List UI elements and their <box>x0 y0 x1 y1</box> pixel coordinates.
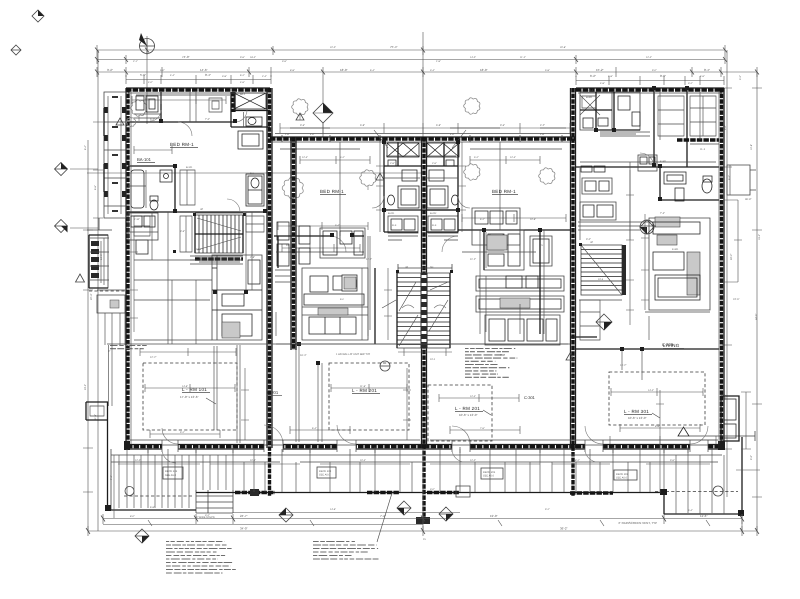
more bottom texts <box>130 508 693 541</box>
window inner line along bottom wall <box>130 439 718 441</box>
right unit dim bracket <box>724 200 742 282</box>
svg-text:44'-6": 44'-6" <box>755 314 758 320</box>
svg-text:15'-2": 15'-2" <box>596 68 604 72</box>
bath block MR <box>426 142 458 210</box>
closet band <box>677 138 719 141</box>
mid units bedroom dims <box>278 214 566 230</box>
hatched wall x233 <box>231 92 235 127</box>
sheet corner marker 1 <box>32 10 44 22</box>
svg-text:8'-8": 8'-8" <box>290 69 295 72</box>
MR kitchen upper <box>484 230 524 270</box>
misc interior thin middle-right <box>462 230 544 334</box>
bedroom vertical thin <box>340 142 500 236</box>
powder room darker <box>246 174 264 206</box>
left unit extra dims <box>130 146 172 332</box>
terrace right deep part <box>664 437 742 514</box>
terrace door arcs <box>162 449 176 463</box>
left marker B <box>55 220 99 233</box>
right unit WD pair <box>638 155 657 171</box>
ML walls near kitchen <box>278 236 375 344</box>
svg-text:34'-0": 34'-0" <box>240 527 248 531</box>
svg-text:6'-4": 6'-4" <box>688 509 693 512</box>
small marks above middle wall <box>290 127 566 129</box>
left unit bath extra <box>128 170 146 208</box>
centerline bottom <box>422 448 424 531</box>
ELEC box MR <box>428 216 458 233</box>
svg-text:11'-6": 11'-6" <box>700 514 707 518</box>
svg-text:12'-2": 12'-2" <box>150 356 156 359</box>
right unit stairs <box>581 245 626 295</box>
svg-text:6'-4": 6'-4" <box>370 69 375 72</box>
terrace circle left <box>125 487 134 496</box>
svg-text:8'-8": 8'-8" <box>655 425 660 428</box>
diamond marker center1 <box>397 501 411 515</box>
svg-text:2'-6": 2'-6" <box>390 162 395 165</box>
dim texts bottom <box>240 514 707 531</box>
setback line y173 <box>87 172 423 174</box>
svg-text:24'-7": 24'-7" <box>240 514 248 518</box>
dashed rect living L1 <box>143 363 237 430</box>
interior wall x161 <box>160 92 162 122</box>
warning triangle left <box>76 274 85 282</box>
left margin extra structure <box>87 218 112 230</box>
bath top-left with door X <box>580 92 640 130</box>
svg-text:4'-2": 4'-2" <box>540 124 545 127</box>
svg-text:L - RM 201: L - RM 201 <box>455 406 480 411</box>
svg-text:CL-3: CL-3 <box>700 148 706 151</box>
extra smudge labels rooms <box>196 248 679 361</box>
more interior leaders <box>382 282 448 308</box>
svg-text:74'-0": 74'-0" <box>182 55 190 59</box>
right unit kitchen dims <box>641 214 649 310</box>
svg-text:14'-0": 14'-0" <box>100 254 103 260</box>
interior dim line y100 left block <box>132 96 226 104</box>
central stair surround <box>398 264 452 272</box>
svg-text:5'-4": 5'-4" <box>335 224 340 227</box>
svg-text:11'-8": 11'-8" <box>94 414 97 420</box>
sheet corner marker 2 <box>11 45 21 55</box>
living labels <box>180 342 674 420</box>
diamond marker center2 <box>439 507 453 521</box>
svg-text:22'-0": 22'-0" <box>330 46 336 49</box>
left exterior wall <box>126 88 129 448</box>
centerline top marker <box>313 103 333 123</box>
top bath fixtures left block <box>234 93 266 149</box>
terrace circle <box>713 486 723 496</box>
svg-text:B-301: B-301 <box>586 96 593 99</box>
svg-text:20'-2": 20'-2" <box>84 384 87 390</box>
MR shower box <box>530 236 552 266</box>
window inner line top left block <box>128 92 722 94</box>
terrace verticals extra <box>127 449 712 513</box>
terrace hatch segment 1 <box>235 491 460 494</box>
svg-text:12'-0": 12'-0" <box>135 459 141 462</box>
right dim vertical x754 <box>752 72 762 531</box>
svg-text:11'-8": 11'-8" <box>360 385 366 388</box>
dim line y533 <box>88 526 757 536</box>
svg-text:3'-2": 3'-2" <box>205 514 210 517</box>
terrace pickets mid <box>244 462 650 492</box>
party wall C x573 <box>571 88 576 496</box>
svg-text:1 HR WALL AT UNIT SEP TYP: 1 HR WALL AT UNIT SEP TYP <box>336 353 371 356</box>
dim ticks along y523 <box>148 520 710 526</box>
right unit upper closet dense <box>690 96 716 136</box>
right margin mid texts <box>728 175 761 240</box>
upper-left stair extra <box>195 213 243 256</box>
right unit bedroom detail <box>581 166 605 172</box>
survey marker top <box>139 33 155 54</box>
left dim vertical x98 <box>93 50 103 531</box>
misc interior thin lines left unit <box>134 212 214 344</box>
svg-text:24'-6": 24'-6" <box>733 298 739 301</box>
assorted tiny dim texts <box>90 118 758 367</box>
svg-text:3'-8": 3'-8" <box>222 75 227 78</box>
svg-text:22'-4": 22'-4" <box>90 294 93 300</box>
left stairs <box>195 215 243 253</box>
svg-text:9'-0": 9'-0" <box>750 455 753 460</box>
gray fills kitchens <box>318 308 348 315</box>
svg-text:5'-0": 5'-0" <box>160 69 165 72</box>
svg-text:B-101: B-101 <box>186 166 193 169</box>
svg-text:8'-4": 8'-4" <box>84 145 87 150</box>
ML entry shaft boxes <box>275 270 291 282</box>
svg-text:8'-2": 8'-2" <box>575 459 580 462</box>
svg-text:BED RM-1: BED RM-1 <box>320 189 344 194</box>
svg-text:2'-4": 2'-4" <box>262 75 267 78</box>
svg-text:16'-4": 16'-4" <box>300 354 306 357</box>
top dims extra texts <box>133 56 705 78</box>
svg-text:11'-2": 11'-2" <box>520 56 526 59</box>
living room mid dim lines <box>145 384 235 392</box>
svg-text:13'-2": 13'-2" <box>620 364 626 367</box>
extra text smudges middle <box>186 96 667 247</box>
left dim vertical x88 <box>83 140 93 531</box>
right exterior wall <box>720 88 723 449</box>
svg-text:K-301: K-301 <box>672 248 679 251</box>
stub walls at ELEC <box>388 236 458 240</box>
svg-text:14'-6": 14'-6" <box>200 68 208 72</box>
top wall left block <box>126 88 270 91</box>
svg-text:1'-6": 1'-6" <box>285 133 290 136</box>
svg-text:4'-0": 4'-0" <box>148 81 153 84</box>
terrace extra detail <box>118 463 710 465</box>
right unit lower left closet <box>580 300 600 340</box>
inner line middle top <box>272 141 570 143</box>
svg-text:9'-2": 9'-2" <box>180 431 185 434</box>
right lower dims <box>736 392 760 470</box>
tub <box>131 170 144 208</box>
svg-text:SEE A5.0: SEE A5.0 <box>616 477 628 480</box>
slash ticks bottom dim <box>86 516 759 535</box>
left annex hatched box <box>89 235 108 288</box>
right margin texts rotated <box>724 75 753 460</box>
bedroom wall y236 <box>274 235 364 237</box>
left unit corridor detail <box>134 212 252 290</box>
svg-text:19'-0": 19'-0" <box>490 514 498 518</box>
svg-text:18'-2": 18'-2" <box>250 56 256 59</box>
svg-text:6'-8": 6'-8" <box>360 124 365 127</box>
svg-text:14'-2": 14'-2" <box>648 389 654 392</box>
marker right stairs <box>596 314 612 330</box>
svg-text:13'-6": 13'-6" <box>724 394 727 400</box>
left kitchen <box>212 255 262 340</box>
bedroom window sill lines <box>136 95 562 149</box>
svg-text:6'-6": 6'-6" <box>94 185 97 190</box>
hall closet lines top-left block <box>190 92 222 122</box>
svg-text:BA-101: BA-101 <box>137 157 152 162</box>
svg-text:11'-2": 11'-2" <box>470 258 476 261</box>
svg-text:5'-2": 5'-2" <box>474 156 479 159</box>
extra top dim texts <box>148 46 693 85</box>
MR W/D cluster <box>472 208 520 250</box>
svg-text:10'-4": 10'-4" <box>250 459 256 462</box>
misc interior right unit <box>579 162 716 340</box>
svg-text:UP: UP <box>200 208 204 211</box>
svg-text:5'-8": 5'-8" <box>608 75 613 78</box>
svg-text:18'-2": 18'-2" <box>730 254 733 260</box>
svg-text:DECK 101: DECK 101 <box>165 470 178 473</box>
hall walls center units upper <box>384 210 458 232</box>
left porch strip <box>104 92 126 218</box>
svg-text:9'-6": 9'-6" <box>670 459 675 462</box>
svg-text:4'-0": 4'-0" <box>450 133 455 136</box>
kitchen MR detail lines <box>506 276 538 288</box>
left unit W/D closet <box>128 213 158 240</box>
svg-text:9'-2": 9'-2" <box>107 68 113 72</box>
right dim vertical x728 <box>722 50 732 497</box>
toilet <box>150 196 158 210</box>
MR kitchen islands <box>476 276 564 312</box>
vertical reference line x147 <box>146 36 148 124</box>
extra fixtures left block top <box>136 96 158 112</box>
deck label boxes <box>163 467 637 480</box>
terrace bottom mid <box>196 492 664 494</box>
top dimension line 3 right block <box>576 76 724 85</box>
door jamb blobs <box>159 86 689 365</box>
svg-text:UP: UP <box>405 266 409 269</box>
bottom text paragraph 1 <box>166 542 236 574</box>
svg-text:UP: UP <box>590 241 594 244</box>
pennant marker right <box>678 427 755 441</box>
svg-text:75'-4": 75'-4" <box>390 45 398 49</box>
chimney box right <box>721 396 739 441</box>
svg-text:ST-1: ST-1 <box>196 248 202 251</box>
svg-text:2'-10": 2'-10" <box>134 218 140 221</box>
svg-text:4'-0": 4'-0" <box>310 133 315 136</box>
left annex lower box <box>97 295 125 313</box>
svg-text:DN: DN <box>430 266 434 269</box>
top dimension line 2 <box>97 55 757 77</box>
kitchen ML big counter <box>302 268 368 340</box>
terrace inner horizontal <box>111 455 722 462</box>
svg-text:7'-4": 7'-4" <box>660 212 665 215</box>
svg-text:12'-4": 12'-4" <box>302 156 308 159</box>
dashed rect living MR <box>428 385 492 441</box>
party wall A terrace block <box>250 489 259 496</box>
svg-text:SEE A5.0: SEE A5.0 <box>483 475 495 478</box>
svg-text:14'-6": 14'-6" <box>182 385 188 388</box>
right unit inner walls extra <box>596 92 640 130</box>
small room boxes <box>580 178 616 220</box>
left living extra vert <box>237 345 240 443</box>
dashed rect living ML <box>329 363 409 430</box>
svg-text:17'-0" x 13'-6": 17'-0" x 13'-6" <box>180 395 198 399</box>
svg-text:6'-2": 6'-2" <box>480 218 485 221</box>
svg-text:7'-0": 7'-0" <box>205 118 210 121</box>
svg-text:SEE A5.0: SEE A5.0 <box>319 474 331 477</box>
party wall B terrace block <box>416 517 430 524</box>
svg-text:K-201: K-201 <box>267 390 279 395</box>
hall wall y212 <box>128 211 265 213</box>
svg-text:18'-0": 18'-0" <box>480 68 488 72</box>
svg-text:L - RM 301: L - RM 301 <box>624 409 649 414</box>
svg-text:15'-4": 15'-4" <box>758 234 761 240</box>
left margin texts rotated <box>84 145 113 480</box>
right kitchen <box>649 217 710 310</box>
party wall A x270 <box>267 88 272 496</box>
bath wall y166 <box>128 165 175 167</box>
dim line y523 <box>103 514 742 524</box>
right terrace verticals <box>676 455 724 514</box>
svg-text:BED RM-1: BED RM-1 <box>170 142 194 147</box>
left unit mid lines <box>134 280 212 344</box>
notes text left of beam <box>110 346 147 349</box>
terrace hatch small segs <box>456 486 470 497</box>
svg-text:9'-4": 9'-4" <box>724 125 727 130</box>
svg-text:12'-4": 12'-4" <box>510 156 516 159</box>
diamond marker y512 <box>279 508 293 522</box>
long beam line y344 <box>107 343 570 345</box>
vertical inner lines exterior walls <box>131 92 719 444</box>
dim chain vertical x462 <box>458 142 466 232</box>
door arc bedroom L1 <box>178 122 192 136</box>
svg-text:6'-2": 6'-2" <box>728 175 731 180</box>
svg-text:4'-6": 4'-6" <box>700 75 705 78</box>
svg-text:3'-4": 3'-4" <box>430 69 435 72</box>
interior wall y157 <box>576 166 719 168</box>
svg-text:36'-2": 36'-2" <box>560 527 568 531</box>
svg-text:9'-0": 9'-0" <box>586 238 591 241</box>
middle bath extra fixtures <box>388 160 454 181</box>
circle marker mid <box>380 361 390 371</box>
svg-text:7'-6": 7'-6" <box>480 427 485 430</box>
svg-text:4'-4": 4'-4" <box>170 74 175 77</box>
svg-text:ELE: ELE <box>432 224 437 227</box>
svg-text:C-301: C-301 <box>524 395 536 400</box>
dashed rect living R <box>609 372 705 425</box>
terrace pickets left <box>119 455 226 508</box>
svg-text:10'-6": 10'-6" <box>530 218 536 221</box>
diamond marker bottom left <box>135 529 149 543</box>
dim chain vertical at x380 <box>376 142 384 232</box>
wall y335 right unit <box>570 337 719 349</box>
terrace left edge <box>107 402 109 510</box>
svg-text:4" RAINSCREEN VENT, TYP: 4" RAINSCREEN VENT, TYP <box>618 521 657 525</box>
svg-text:K-301: K-301 <box>660 160 667 163</box>
terrace inner verticals <box>148 449 664 508</box>
svg-text:L - RM 201: L - RM 201 <box>352 388 377 393</box>
svg-text:6'-2": 6'-2" <box>590 74 596 78</box>
svg-text:3'-2": 3'-2" <box>739 75 742 80</box>
svg-text:2'-6": 2'-6" <box>432 162 437 165</box>
interior wall y122 <box>126 121 235 123</box>
svg-text:14'-6": 14'-6" <box>330 508 336 511</box>
svg-text:2'-8": 2'-8" <box>250 256 255 259</box>
svg-text:1'-8": 1'-8" <box>436 60 441 63</box>
left strip sill marks <box>112 96 118 212</box>
left unit door arcs more <box>150 110 161 121</box>
svg-text:ELE: ELE <box>392 224 397 227</box>
svg-text:C-303: C-303 <box>662 342 674 347</box>
svg-text:9'-2": 9'-2" <box>545 508 550 511</box>
svg-text:10'-6" x 13'-0": 10'-6" x 13'-0" <box>628 416 646 420</box>
svg-text:4'-8": 4'-8" <box>600 82 605 85</box>
centerline x423 <box>422 32 424 137</box>
top wall middle section <box>270 137 576 140</box>
sink vanity <box>160 170 172 182</box>
svg-text:3'-6": 3'-6" <box>282 60 287 63</box>
MR bedroom wall y236 <box>458 229 570 231</box>
entry stoop left <box>86 402 108 420</box>
top wall right block <box>576 88 724 91</box>
closet lines left unit hall <box>180 216 264 252</box>
line y511 dim <box>233 512 460 514</box>
misc interior thin middle-left <box>276 236 370 336</box>
svg-text:11'-2": 11'-2" <box>366 258 372 261</box>
svg-text:4'-6": 4'-6" <box>240 81 245 84</box>
dims and leaders middle <box>374 130 466 148</box>
terrace step box left <box>196 490 233 513</box>
bath sinks MR <box>427 143 459 208</box>
lower bath right unit <box>660 166 719 201</box>
bath wall x175 <box>174 166 176 212</box>
bottom text paragraph 2 <box>313 542 379 560</box>
svg-text:B-201: B-201 <box>388 212 395 215</box>
svg-text:W/D: W/D <box>145 98 150 101</box>
party wall B x424 center <box>422 137 427 524</box>
dim vertical x742 lower <box>741 514 743 531</box>
svg-text:BA-1: BA-1 <box>240 93 246 96</box>
party wall A2 x293 <box>291 137 296 350</box>
svg-text:P-1: P-1 <box>250 172 254 175</box>
ELEC box ML <box>388 216 418 233</box>
powder room left unit <box>248 176 262 204</box>
living band extra leaders <box>206 398 660 418</box>
svg-text:K-2: K-2 <box>340 298 344 301</box>
assorted extra interior marks <box>276 343 568 345</box>
leader diagonal <box>377 493 392 542</box>
svg-text:6'-2": 6'-2" <box>240 74 245 77</box>
notes paragraph center <box>465 349 517 378</box>
svg-text:2'-1": 2'-1" <box>133 60 138 63</box>
bath sinks ML <box>387 143 419 208</box>
svg-text:ST-2: ST-2 <box>430 358 436 361</box>
svg-text:ST-3: ST-3 <box>598 278 604 281</box>
svg-text:6'-4": 6'-4" <box>312 427 317 430</box>
dashed pool line <box>655 491 738 493</box>
extra smudge texts scattered <box>134 89 706 269</box>
svg-text:18'-0": 18'-0" <box>340 68 348 72</box>
svg-text:8'-4": 8'-4" <box>704 68 710 72</box>
interior walls vertical <box>654 88 687 167</box>
svg-text:9'-6": 9'-6" <box>500 124 505 127</box>
svg-text:8'-0": 8'-0" <box>130 515 135 518</box>
window jamb blocks left strip <box>104 107 126 197</box>
svg-text:7'-2": 7'-2" <box>110 475 113 480</box>
svg-text:9'-6": 9'-6" <box>240 56 245 59</box>
right unit top extra walls <box>580 92 614 130</box>
svg-text:36'-8": 36'-8" <box>745 198 751 201</box>
